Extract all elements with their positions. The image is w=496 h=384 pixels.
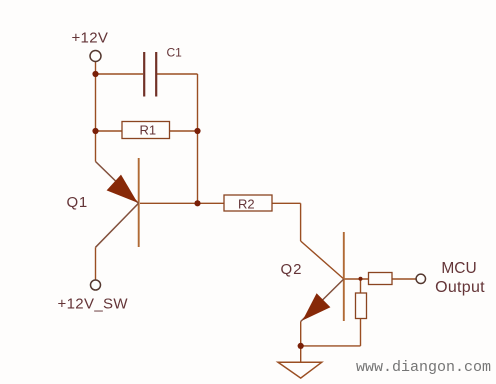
svg-text:Q1: Q1 xyxy=(67,194,88,211)
svg-text:Output: Output xyxy=(435,279,485,296)
svg-text:R1: R1 xyxy=(140,123,157,138)
svg-text:C1: C1 xyxy=(167,45,183,59)
svg-text:+12V_SW: +12V_SW xyxy=(58,296,129,313)
svg-text:+12V: +12V xyxy=(72,30,109,47)
svg-text:Q2: Q2 xyxy=(281,261,303,278)
svg-text:R2: R2 xyxy=(238,197,255,212)
svg-text:www.diangon.com: www.diangon.com xyxy=(356,359,491,376)
svg-text:MCU: MCU xyxy=(441,260,476,277)
